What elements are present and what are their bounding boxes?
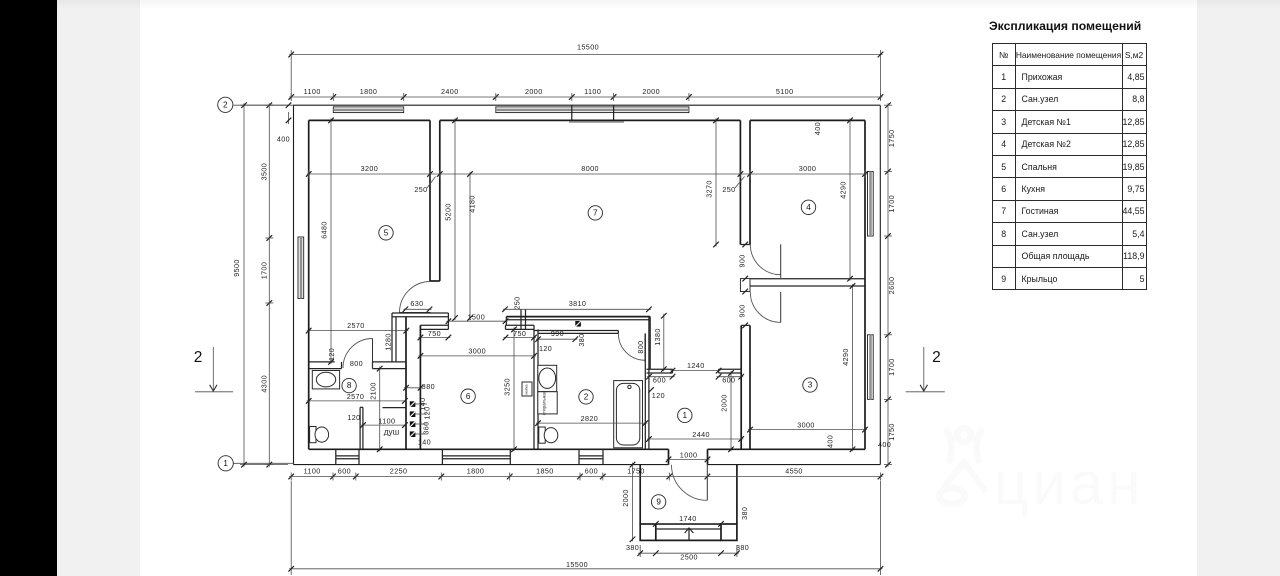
- porch entry arrow: [688, 529, 690, 541]
- svg-text:2100: 2100: [369, 382, 378, 400]
- explication table: [992, 43, 1147, 290]
- dim 4180: [469, 172, 471, 320]
- room8 toilet: [310, 427, 316, 443]
- svg-text:400: 400: [878, 440, 891, 449]
- kitchen sink: [522, 382, 532, 396]
- svg-text:380: 380: [577, 333, 586, 346]
- entrance door 1000: [672, 465, 708, 501]
- svg-text:1750: 1750: [887, 130, 896, 148]
- exterior left wall: [293, 105, 295, 464]
- svg-text:9500: 9500: [232, 259, 241, 277]
- svg-text:1380: 1380: [653, 328, 662, 346]
- svg-text:120: 120: [327, 348, 336, 361]
- top wall window W1 1800: [333, 107, 403, 113]
- svg-text:9: 9: [656, 498, 661, 507]
- svg-text:1750: 1750: [887, 423, 896, 441]
- svg-text:2: 2: [194, 349, 203, 366]
- room2 dim 2820: [536, 422, 647, 424]
- svg-text:1850: 1850: [536, 467, 554, 476]
- svg-text:600: 600: [722, 376, 735, 385]
- svg-text:3000: 3000: [797, 420, 815, 429]
- svg-text:3250: 3250: [503, 378, 512, 396]
- svg-text:5100: 5100: [776, 87, 794, 96]
- svg-text:900: 900: [737, 304, 746, 317]
- room label 3: [803, 378, 817, 392]
- svg-text:750: 750: [513, 329, 526, 338]
- axis circle 2 top-left: [233, 104, 293, 106]
- room4 dim 4290: [849, 118, 851, 280]
- svg-text:2000: 2000: [525, 87, 543, 96]
- svg-text:600: 600: [338, 467, 351, 476]
- svg-text:400: 400: [813, 122, 822, 135]
- svg-text:1100: 1100: [378, 416, 395, 425]
- room3 dim 3000: [748, 429, 867, 431]
- stub dims 600: [647, 376, 675, 378]
- door room3 900: [750, 292, 780, 322]
- svg-text:1: 1: [223, 459, 228, 468]
- dim 1240: [671, 370, 721, 372]
- svg-text:2: 2: [223, 101, 228, 110]
- svg-text:5200: 5200: [444, 203, 453, 221]
- vent square room2 wall: [575, 321, 581, 327]
- svg-text:1500: 1500: [468, 313, 486, 322]
- svg-text:8: 8: [347, 381, 352, 390]
- vent squares kitchen wall: [410, 401, 416, 407]
- svg-text:мойка: мойка: [525, 384, 529, 394]
- left black strip: [0, 0, 57, 576]
- svg-text:380: 380: [422, 382, 435, 391]
- svg-text:1740: 1740: [679, 514, 697, 523]
- porch dim 1740: [654, 523, 723, 525]
- svg-text:1000: 1000: [680, 451, 698, 460]
- shower dim 1100: [361, 424, 407, 426]
- svg-text:380: 380: [736, 543, 749, 552]
- svg-text:4290: 4290: [839, 181, 848, 199]
- svg-text:600: 600: [653, 376, 666, 385]
- right wall window W8: [868, 335, 874, 400]
- axis circle 1 bottom-left: [233, 462, 293, 464]
- room8 sink: [312, 371, 339, 389]
- room label 7: [588, 206, 602, 220]
- svg-text:15500: 15500: [577, 43, 599, 52]
- door room4 900: [750, 244, 780, 274]
- bottom wall window W4: [442, 455, 510, 457]
- left outer dim 9500: [240, 104, 288, 106]
- top dim chain: [289, 96, 882, 98]
- room1 dim 2000: [730, 371, 732, 451]
- wall room7/room4 250mm: [739, 120, 741, 244]
- svg-text:3000: 3000: [468, 346, 486, 355]
- svg-text:1240: 1240: [687, 361, 705, 370]
- svg-text:1100: 1100: [584, 87, 601, 96]
- room2 washing machine: [538, 392, 557, 414]
- svg-text:2000: 2000: [642, 87, 660, 96]
- room2 top wall: [534, 330, 618, 332]
- svg-text:400: 400: [277, 135, 290, 144]
- kitchen top wall: [420, 324, 448, 326]
- door room2 800: [618, 334, 645, 361]
- svg-text:1: 1: [683, 411, 688, 420]
- room label 1: [678, 408, 692, 422]
- room7 band dim line 3200/8000/3000: [307, 173, 867, 175]
- explication table title: [989, 19, 1141, 33]
- shower stall top wall: [383, 407, 407, 409]
- hall left thin wall: [391, 313, 393, 362]
- svg-text:120: 120: [347, 413, 360, 422]
- bottom wall window W5: [579, 455, 603, 457]
- svg-text:630: 630: [410, 299, 423, 308]
- svg-text:3810: 3810: [569, 299, 587, 308]
- svg-text:2500: 2500: [680, 553, 698, 562]
- svg-text:600: 600: [585, 467, 598, 476]
- svg-text:2440: 2440: [692, 430, 710, 439]
- svg-text:2600: 2600: [887, 277, 896, 295]
- svg-text:1700: 1700: [887, 195, 896, 213]
- porch dim 2000: [632, 463, 634, 542]
- svg-text:2570: 2570: [347, 392, 365, 401]
- svg-text:5: 5: [384, 228, 389, 237]
- room2 sink: [538, 365, 557, 391]
- svg-text:250: 250: [513, 296, 522, 309]
- svg-text:3: 3: [808, 381, 813, 390]
- svg-text:3000: 3000: [799, 164, 817, 173]
- svg-text:2570: 2570: [347, 321, 365, 330]
- room1 top wall stubs: [647, 368, 673, 370]
- corridor dim 3810: [503, 308, 651, 310]
- svg-text:380: 380: [626, 543, 639, 552]
- exterior bottom wall: [294, 464, 669, 466]
- room label 2: [579, 390, 593, 404]
- left wall window W6: [298, 237, 304, 299]
- svg-text:4550: 4550: [785, 467, 803, 476]
- svg-text:800: 800: [350, 359, 363, 368]
- dim 990: [536, 338, 577, 340]
- bottom wall window W3: [336, 455, 359, 457]
- svg-text:2: 2: [584, 393, 589, 402]
- dim 630: [403, 308, 431, 310]
- svg-text:360: 360: [422, 421, 431, 434]
- interior wall room5/room7 250mm: [429, 120, 431, 281]
- overall bottom dim 15500: [290, 481, 292, 575]
- room label 9: [651, 495, 665, 509]
- room7 bottom wall: [506, 316, 650, 318]
- bottom dim chain: [289, 476, 882, 478]
- right dim chain 1750/1700/2600/1700/1750: [887, 103, 889, 466]
- svg-text:2: 2: [932, 349, 941, 366]
- watermark cian: [936, 424, 1166, 521]
- svg-text:400: 400: [826, 435, 835, 448]
- exterior right wall: [879, 105, 881, 464]
- svg-text:4: 4: [806, 203, 811, 212]
- porch outline: [639, 465, 641, 524]
- kitchen dim 3000: [418, 355, 536, 357]
- kitchen/room2 wall: [533, 325, 535, 449]
- wall stub 250 in room7: [520, 309, 522, 329]
- svg-text:4180: 4180: [468, 195, 477, 213]
- svg-text:7: 7: [593, 209, 598, 218]
- svg-text:120: 120: [652, 391, 665, 400]
- svg-text:2400: 2400: [441, 87, 459, 96]
- room8 dim 2570: [307, 400, 407, 402]
- dim 5200: [454, 118, 456, 320]
- svg-text:380: 380: [740, 507, 749, 520]
- kitchen 750 dims: [418, 337, 450, 339]
- room2 toilet: [539, 427, 545, 443]
- kitchen passage dim 1500: [446, 320, 507, 322]
- room3 dim 4290: [852, 284, 854, 451]
- svg-text:2820: 2820: [581, 414, 599, 423]
- svg-text:1700: 1700: [887, 358, 896, 376]
- room8 dim 2100: [379, 367, 381, 452]
- svg-text:250: 250: [722, 185, 735, 194]
- svg-text:душ: душ: [384, 428, 399, 437]
- exterior top wall: [294, 104, 881, 106]
- svg-text:1100: 1100: [304, 87, 321, 96]
- door room5-room8 800: [343, 339, 373, 369]
- svg-text:4290: 4290: [841, 348, 850, 366]
- svg-text:750: 750: [428, 329, 441, 338]
- door hall-to-room7 900: [400, 282, 431, 313]
- svg-text:2000: 2000: [621, 489, 630, 507]
- room label 8: [342, 378, 356, 392]
- room5 dim 6480: [330, 118, 332, 364]
- svg-text:2000: 2000: [720, 394, 729, 412]
- room label 6: [461, 389, 475, 403]
- svg-text:6480: 6480: [320, 221, 329, 239]
- entry door dim 1000: [667, 458, 710, 460]
- svg-text:140: 140: [418, 438, 431, 447]
- overall top dim 15500: [290, 50, 292, 100]
- svg-text:120: 120: [539, 344, 552, 353]
- svg-text:120: 120: [423, 406, 432, 419]
- wall room4/room3: [750, 278, 865, 280]
- svg-text:3200: 3200: [361, 164, 379, 173]
- svg-text:8000: 8000: [581, 164, 599, 173]
- svg-text:4300: 4300: [259, 375, 268, 393]
- svg-text:15500: 15500: [566, 560, 588, 569]
- svg-text:990: 990: [551, 329, 564, 338]
- right gray strip: [1197, 0, 1280, 576]
- svg-text:1800: 1800: [467, 467, 485, 476]
- top subtle shade: [57, 0, 1280, 10]
- shower stall partition: [359, 407, 361, 449]
- right wall window W7: [868, 172, 874, 237]
- svg-text:1700: 1700: [259, 262, 268, 280]
- svg-text:1280: 1280: [384, 333, 393, 351]
- room1 dim 2440: [647, 438, 743, 440]
- hall dim 2570: [307, 330, 409, 332]
- room2 bathtub: [614, 381, 643, 448]
- porch step blocks: [640, 524, 656, 540]
- room label 4: [801, 200, 815, 214]
- svg-text:1100: 1100: [304, 467, 321, 476]
- svg-text:6: 6: [466, 392, 471, 401]
- top wall window band W2 2000+1100+2000: [496, 107, 689, 113]
- wall room1/room3 250mm: [740, 325, 742, 449]
- svg-text:стиральная: стиральная: [542, 390, 547, 415]
- kitchen dim 3250: [513, 327, 515, 451]
- dim 3270: [715, 118, 717, 246]
- svg-text:2250: 2250: [390, 467, 408, 476]
- duct dim 380: [404, 387, 423, 389]
- svg-text:1800: 1800: [360, 87, 378, 96]
- svg-text:1750: 1750: [627, 467, 645, 476]
- svg-text:250: 250: [414, 185, 427, 194]
- room5/room8 wall with door: [309, 361, 335, 363]
- svg-text:3500: 3500: [259, 163, 268, 181]
- svg-text:800: 800: [636, 340, 645, 353]
- porch dim 2500: [639, 545, 641, 557]
- shower duct wall 380: [405, 317, 407, 450]
- room2/room1 wall: [644, 333, 646, 449]
- left gray strip: [57, 0, 140, 576]
- left dim chain 3500/1700/4300: [268, 103, 270, 466]
- svg-text:900: 900: [737, 254, 746, 267]
- dim 1380: [663, 314, 665, 371]
- hall top thin wall: [392, 312, 448, 314]
- wall pier between doors: [740, 279, 750, 292]
- room label 5: [379, 226, 393, 240]
- svg-text:3270: 3270: [705, 180, 714, 198]
